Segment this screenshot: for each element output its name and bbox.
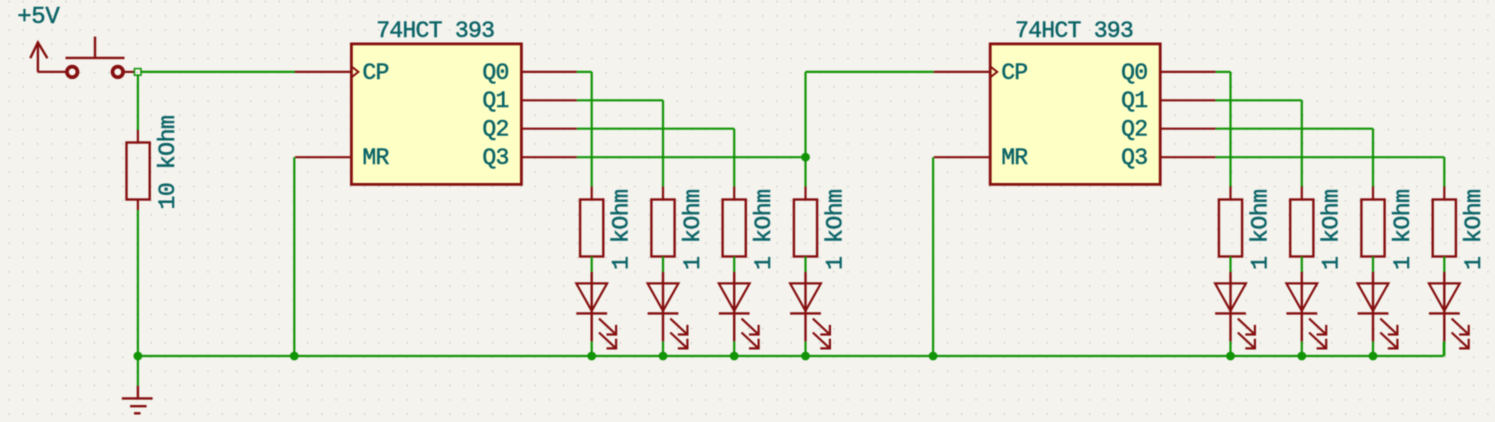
wire bus junction down to ground <box>137 356 139 386</box>
wire R6 to D5 <box>1229 257 1231 272</box>
pin MR of U2 <box>934 145 1029 171</box>
pin Q3 of U1 <box>482 145 576 171</box>
svg-text:MR: MR <box>362 145 389 171</box>
node A wire-end square <box>134 69 141 76</box>
svg-text:+5V: +5V <box>17 4 60 31</box>
LED D2 <box>648 272 688 349</box>
pin Q2 of U2 <box>1121 117 1215 143</box>
svg-text:1 kOhm: 1 kOhm <box>680 189 706 270</box>
resistor R5 1 kOhm <box>794 187 817 257</box>
pin Q2 of U1 <box>482 117 576 143</box>
svg-text:1 kOhm: 1 kOhm <box>1390 189 1416 270</box>
pin Q3 of U2 <box>1121 145 1215 171</box>
svg-text:1 kOhm: 1 kOhm <box>1247 189 1273 270</box>
wire Q1.2 to column 6 <box>1216 99 1302 101</box>
wire D6 to bus <box>1301 341 1303 356</box>
svg-text:1 kOhm: 1 kOhm <box>751 189 777 270</box>
wire Q3.2 to column 8 <box>1216 156 1445 158</box>
svg-text:1 kOhm: 1 kOhm <box>609 189 635 270</box>
op-amp U2 74HCT393 body <box>990 44 1160 185</box>
svg-text:10 kOhm: 10 kOhm <box>155 116 181 210</box>
ground <box>122 386 153 414</box>
LED D8 <box>1429 272 1469 349</box>
svg-text:Q0: Q0 <box>1121 60 1147 86</box>
resistor R8 1 kOhm <box>1361 187 1384 257</box>
LED D3 <box>719 272 759 349</box>
svg-text:74HCT 393: 74HCT 393 <box>1015 18 1133 44</box>
wire R5 to D4 <box>804 257 806 272</box>
LED D4 <box>790 272 830 349</box>
pin Q1 of U2 <box>1121 88 1215 114</box>
pin Q0 of U2 <box>1121 60 1215 86</box>
pin MR of U1 <box>295 145 390 171</box>
junction D7 bus <box>1369 352 1378 361</box>
resistor R6 1 kOhm <box>1219 187 1242 257</box>
wire MR1 to bus <box>293 157 295 356</box>
svg-text:Q1: Q1 <box>1121 88 1147 114</box>
wire Q1.1 to column 2 <box>577 99 663 101</box>
resistor R3 1 kOhm <box>651 187 674 257</box>
wire bus up to D8 <box>1443 341 1445 356</box>
junction bus/ground <box>134 352 143 361</box>
wire cascade to CP2 <box>806 71 934 73</box>
op-amp U1 74HCT393 body <box>351 44 521 185</box>
svg-text:1 kOhm: 1 kOhm <box>822 189 848 270</box>
wire Q2.2 to column 7 <box>1216 128 1373 130</box>
wire R1 to bus <box>137 210 139 356</box>
wire D5 to bus <box>1229 341 1231 356</box>
junction D6 bus <box>1297 352 1306 361</box>
LED D1 <box>576 272 616 349</box>
junction D3 bus <box>730 352 739 361</box>
svg-text:1 kOhm: 1 kOhm <box>1461 189 1487 270</box>
wire MR2 to bus <box>932 157 934 356</box>
wire Q3.1 to column 4 <box>577 156 806 158</box>
junction MR2 bus <box>929 352 938 361</box>
wire R7 to D6 <box>1301 257 1303 272</box>
wire switch to CP1 <box>141 71 296 73</box>
wire R2 to D1 <box>591 257 593 272</box>
pin CP of U2 with clock mark <box>934 60 1028 86</box>
wire R4 to D3 <box>733 257 735 272</box>
svg-text:Q2: Q2 <box>1121 117 1147 143</box>
wire ground bus <box>138 355 1444 357</box>
wire node A down to R1 <box>137 75 139 130</box>
svg-text:74HCT 393: 74HCT 393 <box>376 18 494 44</box>
LED D7 <box>1358 272 1398 349</box>
wire Q2.1 to column 3 <box>577 128 734 130</box>
svg-text:Q3: Q3 <box>1121 145 1147 171</box>
resistor R7 1 kOhm <box>1290 187 1313 257</box>
wire D7 to bus <box>1372 341 1374 356</box>
LED D5 <box>1215 272 1255 349</box>
resistor R2 1 kOhm <box>580 187 603 257</box>
wire D1 to bus <box>591 341 593 356</box>
wire D2 to bus <box>662 341 664 356</box>
pin Q1 of U1 <box>482 88 576 114</box>
wire D8 to bus <box>1443 341 1445 356</box>
svg-text:1 kOhm: 1 kOhm <box>1319 189 1345 270</box>
svg-text:Q0: Q0 <box>482 60 508 86</box>
resistor R1 10 kOhm <box>127 130 150 210</box>
junction D4 bus <box>801 352 810 361</box>
pin CP of U1 with clock mark <box>295 60 389 86</box>
junction MR1 bus <box>290 352 299 361</box>
svg-text:CP: CP <box>1001 60 1027 86</box>
pin Q0 of U1 <box>482 60 576 86</box>
junction Q3.1 cascade <box>801 153 810 162</box>
svg-text:Q1: Q1 <box>482 88 508 114</box>
svg-text:CP: CP <box>362 60 388 86</box>
resistor R9 1 kOhm <box>1433 187 1456 257</box>
wire R3 to D2 <box>662 257 664 272</box>
junction D2 bus <box>659 352 668 361</box>
svg-text:Q2: Q2 <box>482 117 508 143</box>
wire R9 to D8 <box>1443 257 1445 272</box>
wire Q0.2 to column 5 <box>1216 71 1231 73</box>
switch SW1 push button <box>38 37 134 78</box>
wire R8 to D7 <box>1372 257 1374 272</box>
junction D5 bus <box>1226 352 1235 361</box>
power +5V <box>17 4 60 72</box>
svg-text:MR: MR <box>1001 145 1028 171</box>
wire D4 to bus <box>804 341 806 356</box>
junction D1 bus <box>587 352 596 361</box>
wire cascade Q3.1 up <box>804 72 806 157</box>
svg-text:Q3: Q3 <box>482 145 508 171</box>
resistor R4 1 kOhm <box>723 187 746 257</box>
wire D3 to bus <box>733 341 735 356</box>
wire Q0.1 to column 1 <box>577 71 592 73</box>
LED D6 <box>1286 272 1326 349</box>
